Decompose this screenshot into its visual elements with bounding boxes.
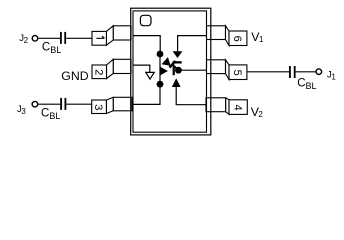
diode D4 triangle: [172, 78, 181, 87]
pin 5 pad: [207, 60, 226, 74]
internal wire D4 to pin 4: [176, 87, 206, 105]
capacitor C_BL (J3 branch) plates: [60, 98, 62, 110]
wire D1 to node C: [172, 64, 178, 70]
pin 4 wedge: [226, 98, 229, 115]
svg-text:2: 2: [92, 69, 104, 75]
terminal J3 circle: [32, 101, 38, 107]
wire C_BL to pin 3: [66, 103, 91, 105]
pin 1 wedge: [106, 26, 113, 45]
pin 3 number box: [92, 100, 107, 114]
svg-text:3: 3: [92, 104, 104, 110]
wire J2 to C_BL: [39, 37, 60, 39]
IC package U1 outer body: [131, 8, 211, 135]
terminal J2 circle: [32, 36, 38, 42]
pin 2 number box: [92, 65, 107, 79]
node C junction dot: [175, 67, 182, 74]
pin 4 number box: [229, 100, 247, 115]
node B junction dot: [157, 81, 164, 88]
wire C_BL to J1: [296, 71, 316, 73]
diode D2 cathode bar: [173, 61, 182, 63]
capacitor C_BL (J2 branch) plates: [60, 32, 62, 44]
pin 6 pad: [207, 26, 226, 40]
IC package U1 inner body outline: [133, 11, 207, 132]
pin 4 pad: [206, 98, 226, 112]
terminal J1 circle: [316, 69, 322, 75]
diode D3 triangle: [160, 67, 168, 75]
wire J3 to C_BL: [39, 103, 61, 105]
pin 1 number label: [96, 36, 104, 38]
pin 6 number box: [229, 31, 247, 46]
svg-text:6: 6: [231, 36, 243, 42]
svg-text:5: 5: [231, 70, 243, 76]
pin 3 wedge: [106, 97, 113, 113]
diode D1 cathode bar (diagonal): [170, 61, 176, 68]
pin 1 number box: [92, 31, 106, 45]
internal wire node C to pin 5: [178, 69, 206, 71]
internal wire pin 1 to node A: [133, 36, 160, 54]
wire pin 5 to C_BL: [247, 71, 289, 73]
pin 6 wedge: [226, 26, 230, 46]
diode D3 cathode bar: [173, 66, 175, 75]
wire C_BL to pin 1: [66, 37, 92, 39]
pin 3 pad: [113, 97, 132, 111]
pin 2 wedge: [107, 59, 114, 78]
capacitor C_BL (J1 branch) plates: [289, 66, 291, 78]
svg-text:GND: GND: [61, 69, 88, 83]
internal wire pin 2 to ground: [133, 65, 150, 72]
ground symbol (hollow triangle): [146, 72, 154, 79]
pin-1 marker circle: [140, 15, 151, 25]
svg-text:4: 4: [231, 105, 243, 111]
internal wire node A to node B: [159, 54, 161, 84]
pin 5 wedge: [226, 60, 230, 80]
pin 5 number box: [229, 65, 247, 80]
pin 2 pad: [113, 59, 131, 73]
diode D2 triangle: [173, 51, 183, 58]
node A junction dot: [157, 51, 164, 58]
internal wire node B to pin 3: [133, 84, 160, 104]
svg-text:J1: J1: [327, 70, 336, 82]
diode D1 triangle (diagonal): [162, 57, 171, 66]
pin 1 pad: [113, 26, 131, 40]
internal wire pin 6 to diode D2: [178, 36, 207, 52]
